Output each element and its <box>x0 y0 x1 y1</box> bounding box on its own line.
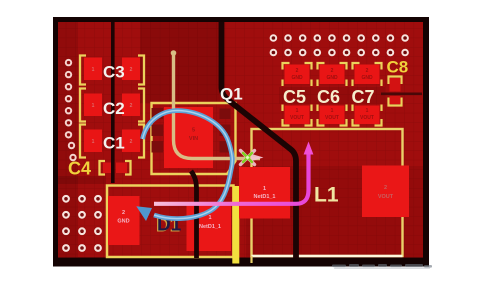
svg-text:C2: C2 <box>103 99 125 118</box>
C1 pads <box>84 130 102 153</box>
black trace T3 (from Q1 bottom right down to board bottom) <box>191 171 197 258</box>
svg-text:2: 2 <box>122 210 125 216</box>
diode D1 outline <box>107 186 234 258</box>
svg-text:GND: GND <box>117 219 129 225</box>
svg-text:2: 2 <box>296 68 299 74</box>
svg-text:L1: L1 <box>314 184 339 207</box>
via rows top-right <box>270 34 409 56</box>
dark trace near C8 <box>381 92 422 95</box>
svg-text:1: 1 <box>331 108 334 114</box>
pink annotation line <box>154 153 309 204</box>
svg-text:NetD1_1: NetD1_1 <box>253 194 275 200</box>
board grid <box>58 22 423 258</box>
svg-text:1: 1 <box>263 186 266 192</box>
svg-text:1: 1 <box>92 139 95 145</box>
blue annotation arc <box>143 111 233 219</box>
tiny pad net texts <box>117 186 275 230</box>
blue arrowhead <box>136 206 152 221</box>
pink arrowhead <box>304 142 314 155</box>
svg-text:VIN: VIN <box>189 136 198 142</box>
svg-text:C6: C6 <box>317 87 340 107</box>
svg-text:VOUT: VOUT <box>290 115 304 121</box>
capacitor C3 <box>80 56 144 85</box>
black trace T2 (top vertical, diagonal, right vertical) <box>222 22 297 258</box>
inductor L1 outline <box>252 129 403 256</box>
capacitor C2 <box>80 89 144 122</box>
faint watermark smudge bottom right <box>332 264 432 268</box>
C3 pads <box>84 58 102 81</box>
Q1 internal trace <box>174 53 261 159</box>
svg-text:2: 2 <box>130 103 133 109</box>
svg-text:C8: C8 <box>387 58 409 77</box>
svg-text:2: 2 <box>130 139 133 145</box>
Q1 thermal pad <box>164 107 213 168</box>
svg-text:GND: GND <box>361 75 373 81</box>
capacitor C1 <box>80 125 144 158</box>
svg-text:1: 1 <box>296 108 299 114</box>
svg-text:C7: C7 <box>352 87 375 107</box>
svg-text:VOUT: VOUT <box>378 194 394 200</box>
L1 pad 2 VOUT <box>362 166 409 218</box>
svg-text:1: 1 <box>366 108 369 114</box>
svg-text:C3: C3 <box>103 63 125 82</box>
C6 pads <box>320 65 345 85</box>
svg-text:VOUT: VOUT <box>325 115 339 121</box>
capacitor C7 <box>353 63 382 126</box>
reference designator labels <box>103 63 375 153</box>
svg-text:2: 2 <box>384 185 387 191</box>
svg-text:NetD1_1: NetD1_1 <box>199 224 221 230</box>
svg-text:1: 1 <box>92 67 95 73</box>
transistor Q1 outline <box>152 103 236 174</box>
PCB black frame <box>53 17 429 267</box>
dark band behind cap label row <box>279 87 385 104</box>
svg-text:Q1: Q1 <box>220 85 243 104</box>
svg-text:5: 5 <box>192 128 195 134</box>
svg-text:1: 1 <box>208 215 211 221</box>
via grid bottom-left <box>62 195 102 252</box>
via column left <box>65 59 77 161</box>
Q1 left pads <box>152 108 164 119</box>
L1 pad 1 NetD1_1 <box>239 167 290 219</box>
svg-text:2: 2 <box>366 68 369 74</box>
D1 thick right bar <box>232 186 239 264</box>
board red area <box>58 22 423 258</box>
svg-text:C4: C4 <box>68 159 91 179</box>
capacitor C8 <box>389 77 402 106</box>
svg-text:GND: GND <box>326 75 338 81</box>
C7 pads <box>355 65 380 85</box>
svg-text:1: 1 <box>92 103 95 109</box>
C8 pads <box>390 78 401 92</box>
Q1 right pads <box>220 109 231 120</box>
svg-text:GND: GND <box>291 75 303 81</box>
svg-text:C1: C1 <box>103 134 125 153</box>
black trace T1 (vertical left) <box>111 22 115 183</box>
tonal shading <box>140 22 220 103</box>
svg-text:2: 2 <box>331 68 334 74</box>
capacitor C4 <box>100 161 131 175</box>
D1 pad 1 NetD1_1 <box>187 205 232 251</box>
green X marker <box>241 151 255 165</box>
svg-text:C5: C5 <box>283 87 306 107</box>
D1 pad 2 GND <box>108 196 140 245</box>
svg-text:VOUT: VOUT <box>360 115 374 121</box>
capacitor C5 <box>283 63 312 126</box>
C2 pads <box>84 94 102 117</box>
C4 pads <box>103 163 114 174</box>
capacitor C6 <box>318 63 347 126</box>
svg-text:2: 2 <box>130 67 133 73</box>
C5 pads <box>285 65 310 85</box>
